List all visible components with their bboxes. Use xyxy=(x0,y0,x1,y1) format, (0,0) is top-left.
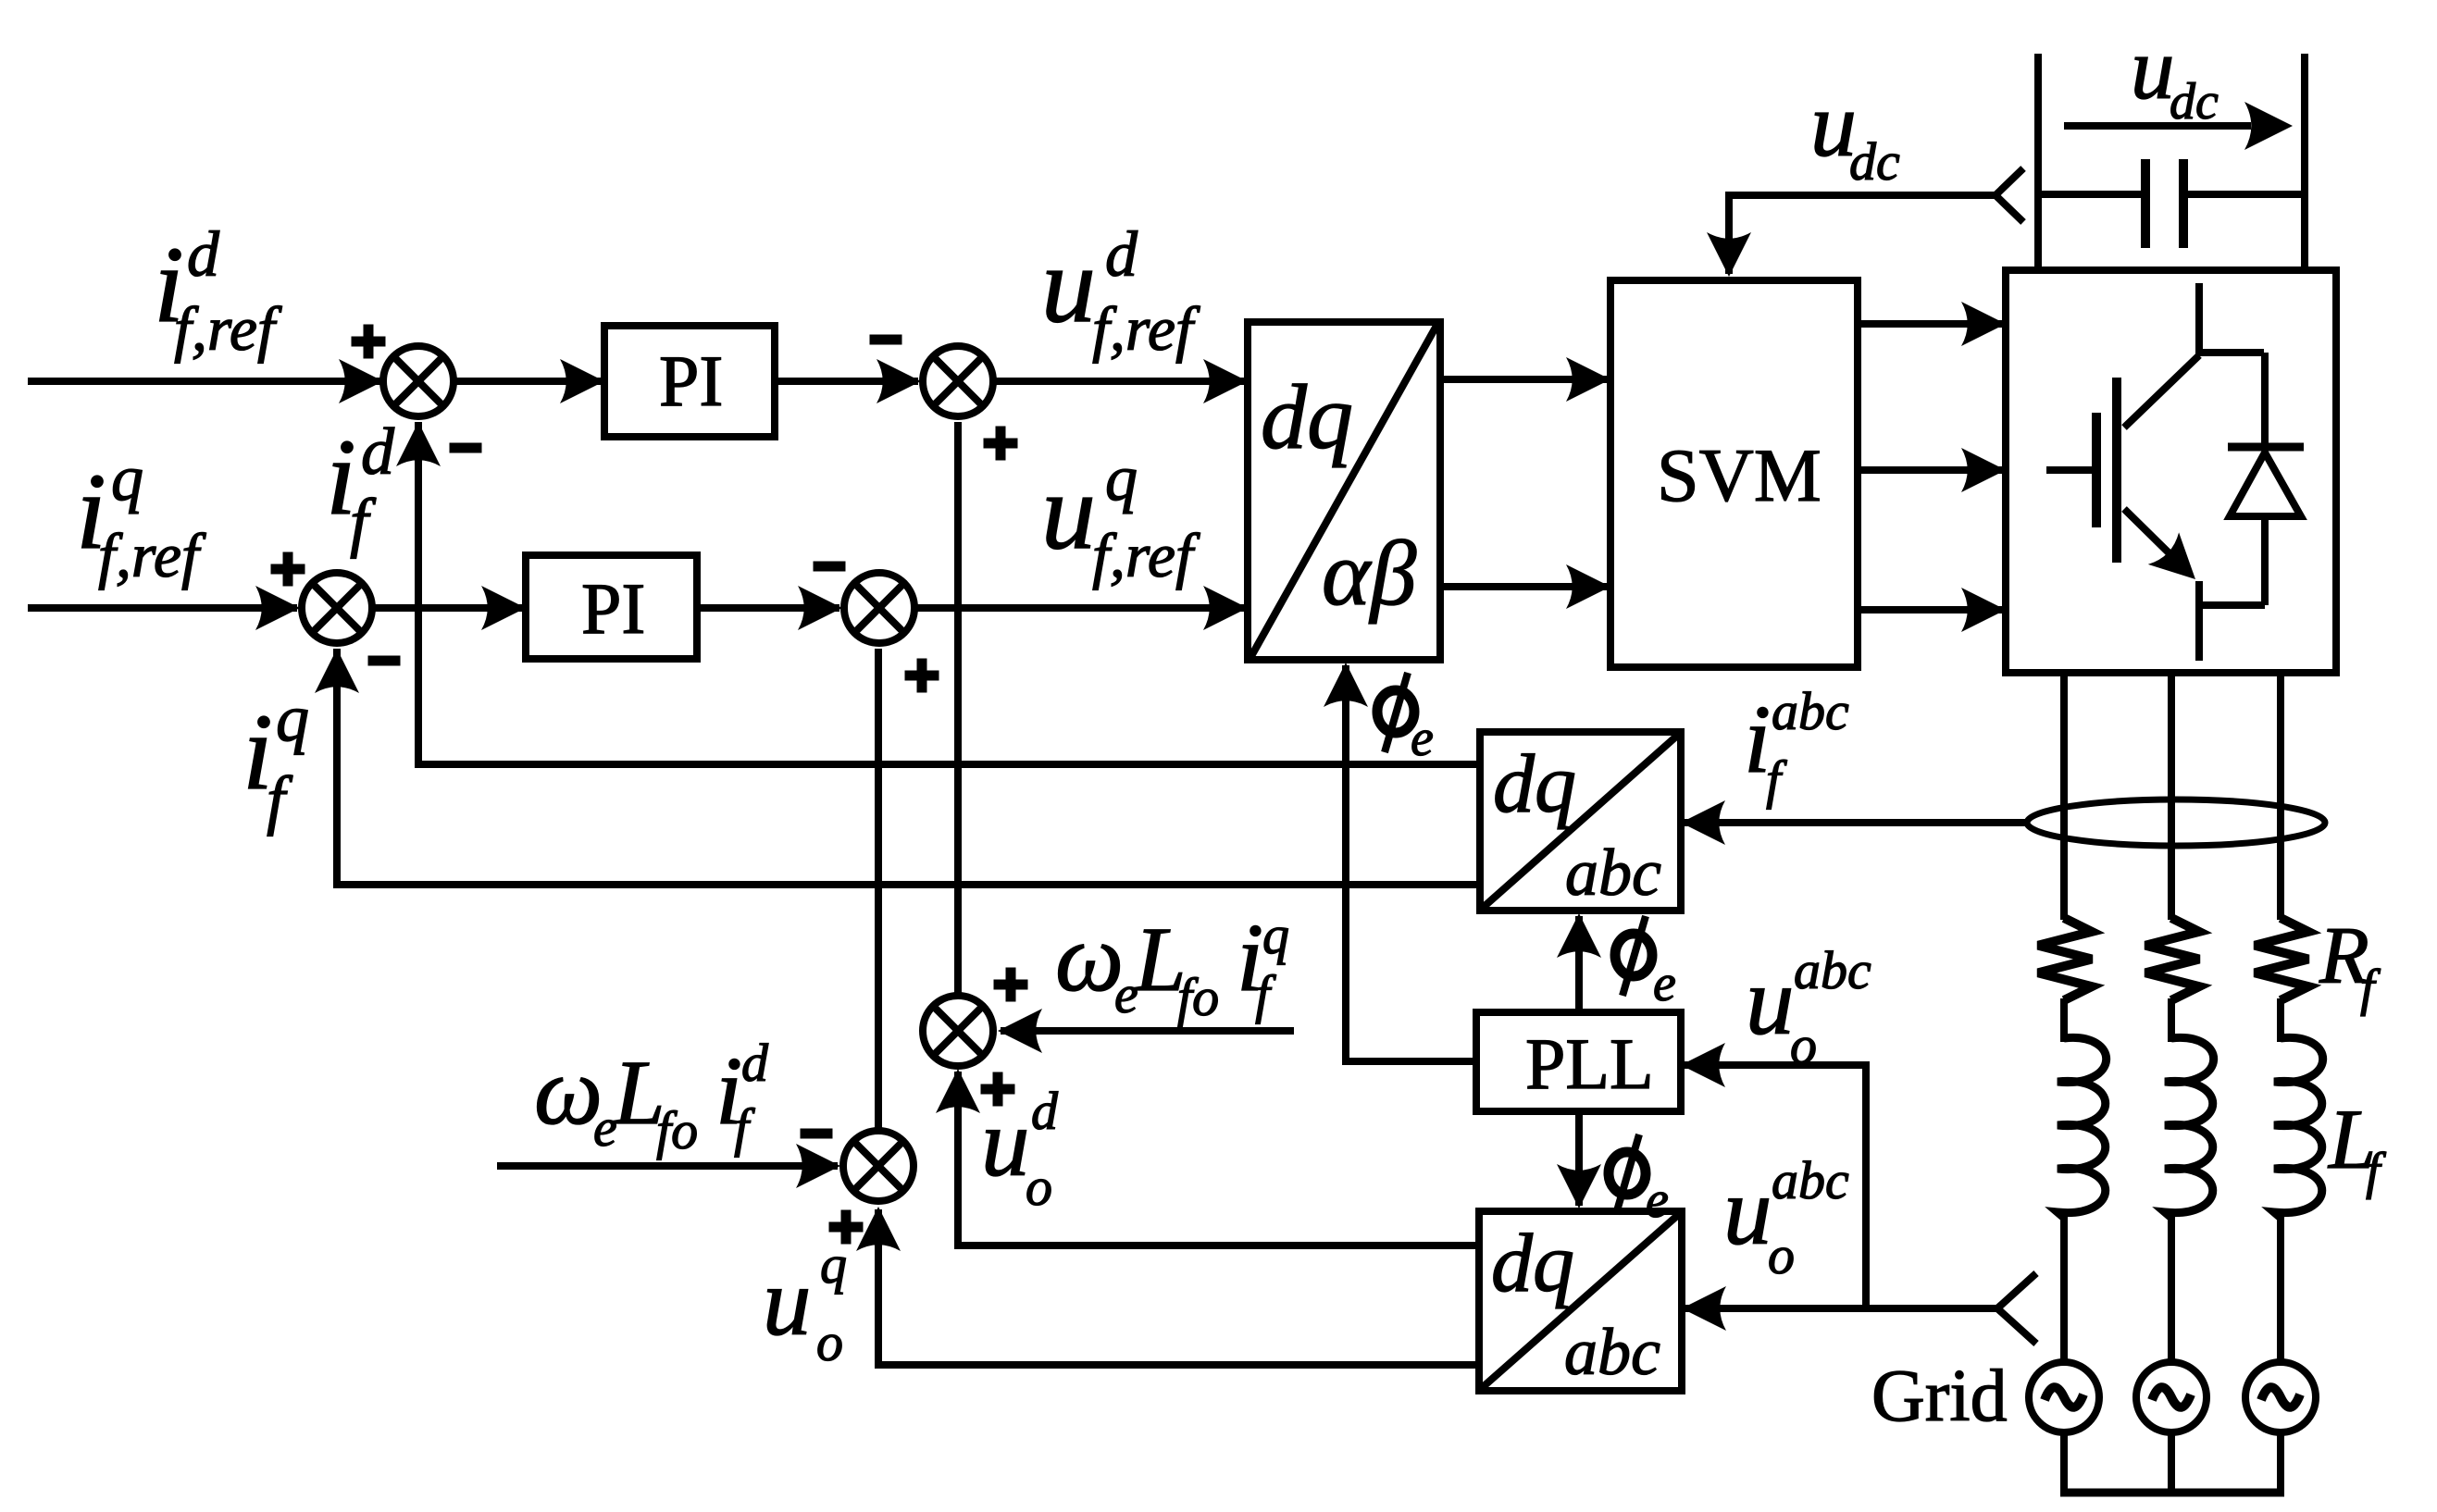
wire phase a from inverter xyxy=(2060,673,2068,920)
block SVM xyxy=(1610,280,1858,667)
node omega_e L_fo i_f^d label xyxy=(534,1033,769,1160)
inductor L_f phase c xyxy=(2274,1037,2323,1218)
wire S1 to PI1 xyxy=(455,359,604,403)
svg-text:q: q xyxy=(276,681,309,755)
svg-text:SVM: SVM xyxy=(1657,433,1822,517)
svg-text:e: e xyxy=(1646,1171,1669,1229)
block PI2 xyxy=(526,555,697,659)
wire SVM gate c xyxy=(1858,588,2006,632)
wire phase c source to bus xyxy=(2277,1432,2284,1496)
node L_f label xyxy=(2327,1092,2387,1200)
svg-text:fo: fo xyxy=(1177,967,1219,1027)
svg-text:u: u xyxy=(2131,19,2175,118)
wire i_f^q feedback xyxy=(315,649,1480,885)
node Grid label xyxy=(1871,1356,2008,1437)
svg-text:dq: dq xyxy=(1493,738,1576,830)
junction current sensor ellipse xyxy=(2027,799,2325,846)
node omega_e L_fo i_f^q label xyxy=(1055,903,1289,1027)
svg-text:PLL: PLL xyxy=(1525,1023,1654,1104)
node u_o^d label xyxy=(981,1081,1059,1217)
ac source grid phase c xyxy=(2245,1362,2316,1432)
diode D1 freewheeling xyxy=(2199,353,2304,605)
wire dq-ab out beta xyxy=(1440,564,1610,609)
svg-text:q: q xyxy=(1105,443,1138,514)
block dq/abc current transform xyxy=(1480,732,1681,911)
sign plus below S6 xyxy=(829,1210,864,1245)
node u_f,ref^d label xyxy=(1041,219,1200,364)
node u_o^abc label lower xyxy=(1723,1150,1849,1285)
wire phase b L to source xyxy=(2168,1213,2175,1364)
node i_f^abc label xyxy=(1744,681,1849,810)
wire SVM gate a xyxy=(1858,302,2006,346)
sign plus at summing junction S1 xyxy=(352,325,386,359)
svg-text:f: f xyxy=(734,1097,755,1158)
wire i_f,ref^d input xyxy=(28,359,383,403)
sign plus at summing junction S2 xyxy=(271,552,305,587)
summing junction S6 xyxy=(843,1131,914,1201)
wire phase b R to L xyxy=(2168,998,2175,1042)
wire grid neutral bus xyxy=(2060,1489,2284,1497)
sign minus below S2 xyxy=(368,656,401,666)
summing junction S5 xyxy=(923,996,993,1066)
wire S6 to S4 xyxy=(875,649,882,1129)
svg-text:d: d xyxy=(187,219,220,291)
sign plus below S4 xyxy=(905,659,939,693)
svg-text:u: u xyxy=(763,1247,812,1356)
svg-text:e: e xyxy=(1411,710,1434,767)
resistor R_f phase b xyxy=(2145,918,2199,1000)
svg-text:u: u xyxy=(1746,947,1795,1055)
ac source grid phase a xyxy=(2029,1362,2099,1432)
summing junction S2 xyxy=(302,573,372,643)
svg-text:abc: abc xyxy=(1794,940,1871,1000)
wire PI1 to S3 xyxy=(775,359,921,403)
svg-text:o: o xyxy=(816,1312,843,1372)
node R_f label xyxy=(2319,911,2381,1017)
node phi_e label upper xyxy=(1615,916,1676,1012)
wire S2 to PI2 xyxy=(374,586,526,630)
inductor L_f phase a xyxy=(2058,1037,2107,1218)
wire IGBT collector xyxy=(2195,283,2264,355)
svg-text:e: e xyxy=(1653,955,1676,1012)
block PI1 xyxy=(604,326,775,437)
node u_o^abc label upper xyxy=(1746,940,1871,1075)
resistor R_f phase a xyxy=(2038,918,2092,1000)
block dq/abc voltage transform xyxy=(1479,1211,1682,1391)
summing junction S1 xyxy=(383,346,454,416)
svg-text:u: u xyxy=(1723,1157,1772,1265)
wire S4 to dq-ab block xyxy=(916,586,1248,630)
wire omega_e L_fo i_f^d into S6 xyxy=(497,1144,840,1188)
node u_o^q label xyxy=(763,1234,847,1372)
wire i_f,ref^q input xyxy=(28,586,300,630)
node i_f,ref^d input label xyxy=(154,219,282,364)
wire u_o^q from dq-abc2 to S6 xyxy=(856,1207,1479,1365)
svg-text:abc: abc xyxy=(1772,681,1849,741)
svg-text:PI: PI xyxy=(659,341,723,421)
sign plus right of S5 xyxy=(994,968,1028,1002)
svg-text:dq: dq xyxy=(1261,366,1353,468)
svg-text:PI: PI xyxy=(581,568,645,649)
sign plus below S5 xyxy=(981,1072,1015,1107)
wire PLL to dq-ab phi_e xyxy=(1324,663,1476,1061)
svg-text:d: d xyxy=(361,415,395,489)
wire i_f^abc to dq-abc1 xyxy=(1681,800,2027,845)
svg-text:f,ref: f,ref xyxy=(174,293,282,364)
svg-text:fo: fo xyxy=(656,1100,698,1160)
wire SVM gate b xyxy=(1858,448,2006,492)
summing junction S3 xyxy=(923,346,993,416)
wire phase a source to bus xyxy=(2060,1432,2068,1496)
node u_dc label top xyxy=(2131,19,2219,130)
summing junction S4 xyxy=(844,573,914,643)
wire phase b source to bus xyxy=(2168,1432,2175,1496)
svg-text:dc: dc xyxy=(2170,73,2219,130)
svg-text:αβ: αβ xyxy=(1322,522,1416,625)
node phi_e label at dq-ab xyxy=(1377,673,1434,767)
node i_f^d label xyxy=(326,415,395,559)
ac source grid phase b xyxy=(2136,1362,2207,1432)
svg-text:f: f xyxy=(350,485,377,559)
svg-text:f: f xyxy=(2366,1143,2387,1200)
wire i_f^d feedback xyxy=(396,422,1480,764)
wire phase b from inverter xyxy=(2168,673,2175,920)
wire phase c L to source xyxy=(2277,1213,2284,1364)
svg-text:q: q xyxy=(1262,905,1289,965)
svg-text:q: q xyxy=(820,1234,847,1295)
wire u_o^abc to dq-abc2 xyxy=(1682,1286,1997,1331)
svg-text:o: o xyxy=(1768,1225,1795,1285)
svg-text:f,ref: f,ref xyxy=(98,520,206,590)
node u_f,ref^q label xyxy=(1041,443,1200,590)
transistor Q1 IGBT xyxy=(2046,355,2199,661)
wire u_dc arrow top xyxy=(2064,102,2293,150)
sign minus at S4 xyxy=(814,562,846,572)
svg-text:u: u xyxy=(1041,224,1096,345)
node u_dc label left xyxy=(1810,73,1900,192)
wire phase a L to source xyxy=(2060,1213,2068,1364)
svg-text:u: u xyxy=(1041,451,1096,572)
svg-text:u: u xyxy=(981,1088,1030,1196)
node phi_e label lower xyxy=(1609,1134,1669,1229)
inductor L_f phase b xyxy=(2165,1037,2214,1218)
svg-text:q: q xyxy=(111,443,143,514)
wire phase c R to L xyxy=(2277,998,2284,1042)
svg-text:dq: dq xyxy=(1491,1218,1574,1309)
svg-text:f: f xyxy=(1255,964,1276,1024)
sign minus at S3 xyxy=(870,335,902,345)
svg-text:f: f xyxy=(2360,960,2381,1017)
wire DC rail negative xyxy=(2301,54,2308,270)
svg-text:abc: abc xyxy=(1772,1150,1849,1210)
wire phase a R to L xyxy=(2060,998,2068,1042)
sign minus below S1 xyxy=(450,443,482,453)
wire phase c from inverter xyxy=(2277,673,2284,920)
wire PLL to dq-abc2 phi_e xyxy=(1557,1111,1601,1208)
svg-text:abc: abc xyxy=(1564,1315,1660,1389)
block PLL xyxy=(1476,1012,1681,1111)
block inverter bridge xyxy=(2006,270,2336,673)
svg-text:d: d xyxy=(741,1033,769,1093)
capacitor C_dc xyxy=(2038,159,2305,248)
sign minus above S6 input xyxy=(801,1129,833,1139)
svg-text:d: d xyxy=(1105,219,1138,291)
wire DC rail positive xyxy=(2034,54,2042,270)
svg-text:dc: dc xyxy=(1849,131,1900,192)
svg-text:f,ref: f,ref xyxy=(1092,293,1200,364)
wire PI2 to S4 xyxy=(697,586,842,630)
wire u_dc measurement to SVM xyxy=(1707,195,1997,277)
sign plus below S3 xyxy=(984,427,1018,461)
wire S5 to S3 xyxy=(954,422,962,994)
resistor R_f phase c xyxy=(2255,918,2308,1000)
junction u_o tap symbol xyxy=(1997,1273,2036,1344)
svg-text:abc: abc xyxy=(1565,836,1661,910)
svg-text:Grid: Grid xyxy=(1871,1356,2008,1437)
svg-text:d: d xyxy=(1031,1081,1059,1141)
svg-text:f: f xyxy=(1766,750,1787,810)
wire u_o^d from dq-abc2 to S5 xyxy=(936,1069,1479,1246)
wire PLL to dq-abc1 phi_e xyxy=(1557,913,1601,1012)
block dq/alphabeta transform xyxy=(1248,322,1440,660)
wire dq-ab out alpha xyxy=(1440,357,1610,402)
node i_f,ref^q input label xyxy=(76,443,206,590)
junction u_dc tap symbol xyxy=(1996,168,2023,222)
wire omega_e L_fo i_f^q into S5 xyxy=(998,1009,1294,1053)
node i_f^q label xyxy=(242,681,309,837)
svg-text:o: o xyxy=(1026,1157,1052,1217)
wire S3 to dq-ab block xyxy=(995,359,1248,403)
svg-text:f: f xyxy=(267,762,293,837)
svg-text:f,ref: f,ref xyxy=(1092,520,1200,590)
wire u_o^abc to PLL xyxy=(1681,1043,1866,1308)
